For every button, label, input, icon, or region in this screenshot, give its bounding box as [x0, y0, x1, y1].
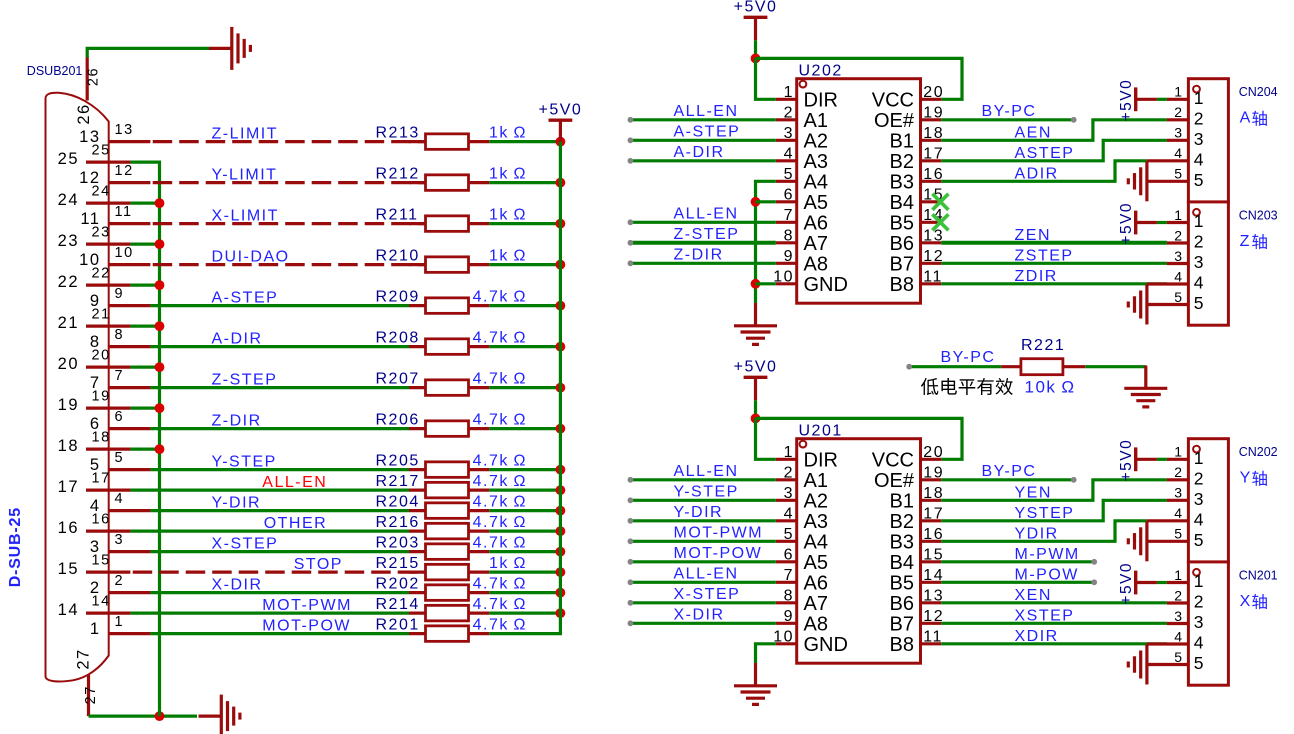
svg-text:ZSTEP: ZSTEP	[1015, 247, 1074, 264]
pin 11 (B8) of U202	[921, 282, 942, 285]
svg-text:4.7k Ω: 4.7k Ω	[473, 493, 527, 510]
svg-text:Z-DIR: Z-DIR	[674, 246, 724, 263]
svg-text:MOT-POW: MOT-POW	[262, 617, 351, 634]
junction R205/+5V0 rail	[556, 465, 566, 475]
svg-text:ALL-EN: ALL-EN	[674, 565, 739, 582]
svg-text:2: 2	[1174, 104, 1183, 120]
svg-text:R203: R203	[376, 534, 420, 551]
wire net X-DIR (pin 2)	[150, 591, 409, 594]
svg-text:9: 9	[115, 286, 125, 302]
svg-text:B6: B6	[890, 233, 914, 255]
svg-text:5: 5	[1174, 289, 1183, 305]
svg-text:22: 22	[92, 266, 111, 282]
wire net M-PWM	[941, 560, 1094, 563]
svg-text:14: 14	[923, 567, 944, 584]
svg-text:2: 2	[1194, 592, 1205, 612]
wire pin 18 to ground bus	[130, 448, 159, 451]
svg-text:B3: B3	[890, 531, 914, 553]
svg-text:A4: A4	[804, 171, 828, 193]
svg-text:R207: R207	[376, 370, 420, 387]
resistor R212	[409, 181, 426, 184]
junction pin 24	[155, 198, 165, 208]
svg-text:4: 4	[1174, 505, 1183, 521]
wire R208 to +5V0 rail	[489, 345, 560, 348]
endpoint MOT-PWM	[628, 538, 634, 544]
svg-text:CN203: CN203	[1239, 208, 1278, 222]
svg-text:Y-STEP: Y-STEP	[674, 483, 739, 500]
wire R204 to +5V0 rail	[489, 509, 560, 512]
pin 16 (B3) of U201	[921, 540, 942, 543]
pin 1 (DIR) of U201	[776, 458, 797, 461]
svg-text:6: 6	[784, 546, 794, 563]
svg-text:DSUB201: DSUB201	[27, 64, 83, 78]
resistor R201	[409, 632, 426, 635]
svg-text:+5V0: +5V0	[1118, 79, 1135, 122]
svg-text:5: 5	[1194, 170, 1205, 190]
svg-text:10: 10	[115, 245, 134, 261]
pin 10 of DSUB201	[108, 263, 150, 266]
svg-text:A4: A4	[804, 531, 828, 553]
pin 5 of CN202	[1147, 540, 1189, 543]
resistor R216	[409, 529, 426, 532]
wire +5V0 to U201	[754, 400, 757, 418]
wire R207 to +5V0 rail	[489, 386, 560, 389]
svg-text:R216: R216	[376, 514, 420, 531]
junction R217/+5V0 rail	[556, 485, 566, 495]
svg-text:5: 5	[1194, 293, 1205, 313]
svg-text:17: 17	[923, 145, 944, 162]
wire R203 to +5V0 rail	[489, 550, 560, 553]
svg-text:R211: R211	[376, 206, 419, 223]
svg-text:OE#: OE#	[874, 110, 915, 132]
svg-text:20: 20	[923, 444, 944, 461]
wire net BY-PC (OE#)	[941, 118, 1073, 121]
wire pin 24 to ground bus	[130, 202, 159, 205]
endpoint X-STEP	[628, 600, 634, 606]
svg-text:B2: B2	[890, 511, 914, 533]
svg-text:R212: R212	[376, 165, 420, 182]
svg-text:21: 21	[92, 307, 111, 323]
svg-text:+5V0: +5V0	[1118, 439, 1135, 482]
wire R213 to +5V0 rail	[489, 140, 560, 143]
pin 10 (GND) of U202	[776, 282, 797, 285]
svg-text:4.7k Ω: 4.7k Ω	[473, 596, 527, 613]
pin 13 (B6) of U201	[921, 601, 942, 604]
svg-text:6: 6	[115, 409, 125, 425]
svg-text:3: 3	[784, 125, 794, 142]
svg-text:X: X	[1240, 593, 1252, 610]
svg-text:4: 4	[1174, 268, 1183, 284]
svg-text:A2: A2	[804, 130, 828, 152]
wire net BY-PC to R221	[909, 365, 1001, 368]
svg-text:2: 2	[115, 573, 125, 589]
svg-text:14: 14	[58, 601, 79, 619]
svg-text:16: 16	[923, 526, 944, 543]
svg-text:XSTEP: XSTEP	[1015, 607, 1075, 624]
svg-text:A7: A7	[804, 233, 828, 255]
svg-text:B5: B5	[890, 572, 914, 594]
svg-text:M-PWM: M-PWM	[1015, 546, 1080, 563]
svg-text:R204: R204	[376, 493, 420, 510]
pin 14 of DSUB201	[86, 611, 130, 614]
junction pin 6 U202	[751, 197, 761, 207]
connector CN204	[1188, 79, 1228, 202]
pin 25 of DSUB201	[86, 161, 130, 164]
svg-text:1: 1	[1174, 207, 1183, 223]
endpoint A-STEP	[628, 137, 634, 143]
pin 17 of DSUB201	[86, 489, 130, 492]
junction +5V0/U202	[751, 54, 761, 64]
pin 8 (A7) of U201	[776, 601, 797, 604]
svg-text:4.7k Ω: 4.7k Ω	[473, 616, 527, 633]
svg-text:A1: A1	[804, 470, 828, 492]
resistor R208	[409, 345, 426, 348]
svg-text:AEN: AEN	[1015, 124, 1052, 141]
junction R214/+5V0 rail	[556, 608, 566, 618]
svg-text:9: 9	[784, 248, 794, 265]
wire pin 20 to ground bus	[130, 366, 159, 369]
junction pin 23	[155, 239, 165, 249]
svg-text:ZDIR: ZDIR	[1015, 268, 1058, 285]
wire net XEN	[941, 601, 1167, 604]
resistor R211	[409, 222, 426, 225]
wire pin27 to ground	[89, 714, 198, 717]
svg-text:13: 13	[115, 122, 134, 138]
endpoint M-PWM	[1091, 559, 1097, 565]
svg-text:R209: R209	[376, 288, 420, 305]
svg-text:20: 20	[92, 348, 111, 364]
ground at CN204 pin 5	[1145, 161, 1148, 201]
junction +5V0/U201	[751, 414, 761, 424]
svg-text:4.7k Ω: 4.7k Ω	[473, 411, 527, 428]
svg-text:R214: R214	[376, 596, 420, 613]
svg-text:Y: Y	[1240, 470, 1252, 487]
wire net ADIR	[941, 161, 1147, 182]
svg-text:Z-STEP: Z-STEP	[674, 226, 740, 243]
svg-text:1k Ω: 1k Ω	[489, 124, 527, 141]
pin 2 of DSUB201	[108, 591, 150, 594]
IC U201	[797, 439, 921, 664]
junction R207/+5V0 rail	[556, 383, 566, 393]
pin 14 (B5) of U201	[921, 581, 942, 584]
IC U202	[797, 79, 921, 304]
label low-level-active (Chinese)	[921, 378, 938, 395]
svg-text:5: 5	[784, 526, 794, 543]
svg-text:21: 21	[58, 314, 79, 332]
junction pin 10 GND U202	[751, 279, 761, 289]
junction pin 22	[155, 280, 165, 290]
pin 20 (VCC) of U202	[921, 98, 942, 101]
endpoint Z-STEP	[628, 240, 634, 246]
wire net A-DIR to U202 pin 4	[630, 159, 775, 162]
svg-text:4.7k Ω: 4.7k Ω	[473, 514, 527, 531]
svg-text:27: 27	[83, 685, 99, 704]
pin 1 (DIR) of U202	[776, 98, 797, 101]
svg-text:1: 1	[1194, 571, 1205, 591]
resistor R203	[409, 550, 426, 553]
svg-text:VCC: VCC	[872, 449, 914, 471]
svg-text:DUI-DAO: DUI-DAO	[212, 248, 290, 265]
pin 4 of CN202	[1147, 519, 1189, 522]
svg-text:ALL-EN: ALL-EN	[674, 103, 739, 120]
wire net MOT-PWM (pin 14)	[130, 611, 409, 614]
pin 3 of CN204	[1167, 139, 1189, 142]
svg-text:4: 4	[1194, 149, 1205, 169]
svg-text:3: 3	[1194, 129, 1205, 149]
junction R212/+5V0 rail	[556, 178, 566, 188]
pin 21 of DSUB201	[86, 325, 130, 328]
pin 5 of CN201	[1147, 663, 1189, 666]
pin 1 of CN202	[1167, 458, 1189, 461]
svg-text:4.7k Ω: 4.7k Ω	[473, 370, 527, 387]
svg-text:MOT-PWM: MOT-PWM	[674, 524, 764, 541]
svg-text:20: 20	[58, 355, 79, 373]
svg-text:4: 4	[1194, 633, 1205, 653]
svg-text:Y-STEP: Y-STEP	[212, 453, 277, 470]
endpoint BY-PC	[1071, 117, 1077, 123]
svg-text:22: 22	[58, 273, 79, 291]
ground bottom-left	[199, 714, 221, 717]
ground top-left	[209, 47, 231, 50]
pin 5 of DSUB201	[108, 468, 150, 471]
pin 24 of DSUB201	[86, 202, 130, 205]
pin 4 of DSUB201	[108, 509, 150, 512]
svg-text:4.7k Ω: 4.7k Ω	[473, 329, 527, 346]
svg-text:8: 8	[784, 227, 794, 244]
svg-text:CN201: CN201	[1239, 568, 1278, 582]
svg-text:8: 8	[784, 587, 794, 604]
ground at CN203 pin 5	[1145, 285, 1148, 325]
svg-text:Z-LIMIT: Z-LIMIT	[212, 125, 279, 142]
svg-text:25: 25	[58, 150, 79, 168]
junction R206/+5V0 rail	[556, 424, 566, 434]
svg-text:ZEN: ZEN	[1015, 227, 1052, 244]
svg-text:14: 14	[92, 594, 111, 610]
pin 1 of DSUB201	[108, 632, 150, 635]
svg-text:16: 16	[92, 512, 111, 528]
pin 2 of CN202	[1167, 478, 1189, 481]
svg-text:B2: B2	[890, 151, 914, 173]
svg-text:13: 13	[923, 587, 944, 604]
wire R217 to +5V0 rail	[489, 489, 560, 492]
pin 6 (A5) of U202	[776, 200, 797, 203]
svg-text:4: 4	[1174, 628, 1183, 644]
svg-text:A8: A8	[804, 613, 828, 635]
connector CN203	[1188, 202, 1228, 325]
svg-text:2: 2	[1174, 464, 1183, 480]
svg-text:B5: B5	[890, 212, 914, 234]
junction R209/+5V0 rail	[556, 301, 566, 311]
svg-text:Y-DIR: Y-DIR	[674, 504, 724, 521]
svg-text:4.7k Ω: 4.7k Ω	[473, 575, 527, 592]
pin 22 of DSUB201	[86, 284, 130, 287]
svg-text:A-STEP: A-STEP	[212, 289, 279, 306]
wire R205 to +5V0 rail	[489, 468, 560, 471]
wire GND pin 10 U201	[756, 644, 776, 663]
svg-text:R208: R208	[376, 329, 420, 346]
resistor R204	[409, 509, 426, 512]
svg-text:12: 12	[115, 163, 134, 179]
junction pin27/ground-bus	[155, 711, 165, 721]
svg-text:ALL-EN: ALL-EN	[674, 463, 739, 480]
pin 4 of CN201	[1147, 642, 1189, 645]
resistor R221	[1001, 365, 1021, 368]
svg-text:15: 15	[923, 546, 944, 563]
svg-text:ASTEP: ASTEP	[1015, 145, 1075, 162]
wire pin 21 to ground bus	[130, 325, 159, 328]
svg-text:1k Ω: 1k Ω	[489, 247, 527, 264]
junction R216/+5V0 rail	[556, 526, 566, 536]
svg-text:R221: R221	[1021, 337, 1065, 354]
pin 27 of DSUB201	[87, 675, 90, 716]
pin 6 of DSUB201	[108, 427, 150, 430]
svg-text:19: 19	[92, 389, 111, 405]
pin 14 (B5) of U202	[921, 221, 942, 224]
ground U201	[754, 663, 757, 685]
svg-text:GND: GND	[804, 274, 848, 296]
svg-text:24: 24	[58, 191, 79, 209]
pin 2 of CN204	[1167, 118, 1189, 121]
svg-text:A2: A2	[804, 490, 828, 512]
svg-text:3: 3	[1194, 612, 1205, 632]
svg-text:3: 3	[115, 532, 125, 548]
svg-text:5: 5	[1174, 649, 1183, 665]
pin 9 (A8) of U202	[776, 262, 797, 265]
wire A4/A5 ground tie U202	[756, 181, 776, 303]
svg-text:2: 2	[1194, 232, 1205, 252]
wire net ALL-EN to U202 pin 2	[630, 118, 775, 121]
wire pin 19 to ground bus	[130, 407, 159, 410]
wire net Z-DIR (pin 6)	[150, 427, 409, 430]
wire net XDIR	[941, 642, 1167, 645]
svg-text:1: 1	[784, 444, 794, 461]
svg-text:M-POW: M-POW	[1015, 566, 1079, 583]
pin 17 (B2) of U202	[921, 159, 942, 162]
svg-text:R201: R201	[376, 616, 420, 633]
svg-text:4.7k Ω: 4.7k Ω	[473, 452, 527, 469]
svg-text:3: 3	[1194, 252, 1205, 272]
svg-text:DIR: DIR	[804, 449, 838, 471]
svg-text:STOP: STOP	[294, 556, 343, 573]
resistor R202	[409, 591, 426, 594]
svg-text:4: 4	[784, 505, 794, 522]
svg-text:2: 2	[1174, 587, 1183, 603]
wire net Y-LIMIT (pin 12)	[153, 181, 427, 184]
svg-text:X-STEP: X-STEP	[674, 586, 741, 603]
junction pin 20	[155, 362, 165, 372]
junction pin 21	[155, 321, 165, 331]
svg-text:Z: Z	[1240, 233, 1251, 250]
endpoint Y-DIR	[628, 518, 634, 524]
svg-text:Y-DIR: Y-DIR	[212, 494, 262, 511]
endpoint ALL-EN	[628, 117, 634, 123]
svg-text:B4: B4	[890, 192, 914, 214]
svg-text:4: 4	[115, 491, 125, 507]
wire net Y-DIR to U201 pin 4	[630, 519, 775, 522]
pin 4 of CN204	[1147, 159, 1189, 162]
svg-text:X-STEP: X-STEP	[212, 535, 279, 552]
svg-text:17: 17	[923, 505, 944, 522]
svg-text:4: 4	[1174, 145, 1183, 161]
connector CN202	[1188, 439, 1228, 562]
svg-text:1: 1	[1194, 88, 1205, 108]
svg-text:4: 4	[1194, 509, 1205, 529]
connector CN201	[1188, 562, 1228, 685]
pin 11 (B8) of U201	[921, 642, 942, 645]
resistor R205	[409, 468, 426, 471]
svg-text:23: 23	[58, 232, 79, 250]
svg-text:A1: A1	[804, 110, 828, 132]
pin 9 (A8) of U201	[776, 622, 797, 625]
wire net Y-STEP (pin 5)	[150, 468, 409, 471]
svg-text:7: 7	[784, 207, 794, 224]
svg-text:+5V0: +5V0	[538, 102, 582, 119]
resistor R207	[409, 386, 426, 389]
svg-text:25: 25	[92, 143, 111, 159]
wire net A-STEP to U202 pin 3	[630, 139, 775, 142]
wire DIR U201 pin 1	[756, 418, 776, 459]
wire R212 to +5V0 rail	[489, 181, 560, 184]
wire pin 22 to ground bus	[130, 284, 159, 287]
svg-text:U202: U202	[799, 63, 843, 80]
svg-text:+5V0: +5V0	[734, 0, 778, 16]
svg-text:ALL-EN: ALL-EN	[674, 205, 739, 222]
svg-text:X-DIR: X-DIR	[674, 606, 725, 623]
endpoint A-DIR	[628, 158, 634, 164]
pin 12 of DSUB201	[108, 181, 150, 184]
svg-text:16: 16	[923, 166, 944, 183]
pin 15 of DSUB201	[86, 570, 130, 573]
pin 1 of CN203	[1167, 221, 1189, 224]
wire pin26 to ground	[87, 48, 209, 57]
pin 8 of DSUB201	[108, 345, 150, 348]
svg-text:11: 11	[923, 628, 943, 645]
svg-text:BY-PC: BY-PC	[982, 463, 1037, 480]
svg-text:B1: B1	[890, 130, 914, 152]
pin 20 (VCC) of U201	[921, 458, 942, 461]
resistor R206	[409, 427, 426, 430]
wire R215 to +5V0 rail	[489, 570, 560, 573]
svg-text:10: 10	[773, 628, 794, 645]
svg-text:B7: B7	[890, 253, 914, 275]
pin 6 (A5) of U201	[776, 560, 797, 563]
wire net MOT-PWM to U201 pin 5	[630, 540, 775, 543]
svg-text:X-DIR: X-DIR	[212, 576, 263, 593]
svg-text:2: 2	[784, 464, 794, 481]
wire net X-STEP (pin 3)	[150, 550, 409, 553]
wire net BY-PC (OE#)	[941, 478, 1073, 481]
endpoint Y-STEP	[628, 497, 634, 503]
svg-text:B4: B4	[890, 552, 914, 574]
svg-text:1k Ω: 1k Ω	[489, 165, 527, 182]
wire R206 to +5V0 rail	[489, 427, 560, 430]
pin 23 of DSUB201	[86, 243, 130, 246]
svg-text:B8: B8	[890, 274, 914, 296]
wire net ZDIR	[941, 282, 1167, 285]
svg-text:B8: B8	[890, 634, 914, 656]
svg-text:10k Ω: 10k Ω	[1025, 378, 1076, 397]
svg-text:3: 3	[1194, 489, 1205, 509]
junction R203/+5V0 rail	[556, 547, 566, 557]
junction pin 19	[155, 403, 165, 413]
wire net ZSTEP	[941, 262, 1167, 265]
pin 10 (GND) of U201	[776, 642, 797, 645]
pin 16 (B3) of U202	[921, 180, 942, 183]
ground at CN201 pin 5	[1145, 645, 1148, 685]
svg-text:A6: A6	[804, 212, 828, 234]
svg-text:23: 23	[92, 225, 111, 241]
svg-text:B6: B6	[890, 593, 914, 615]
